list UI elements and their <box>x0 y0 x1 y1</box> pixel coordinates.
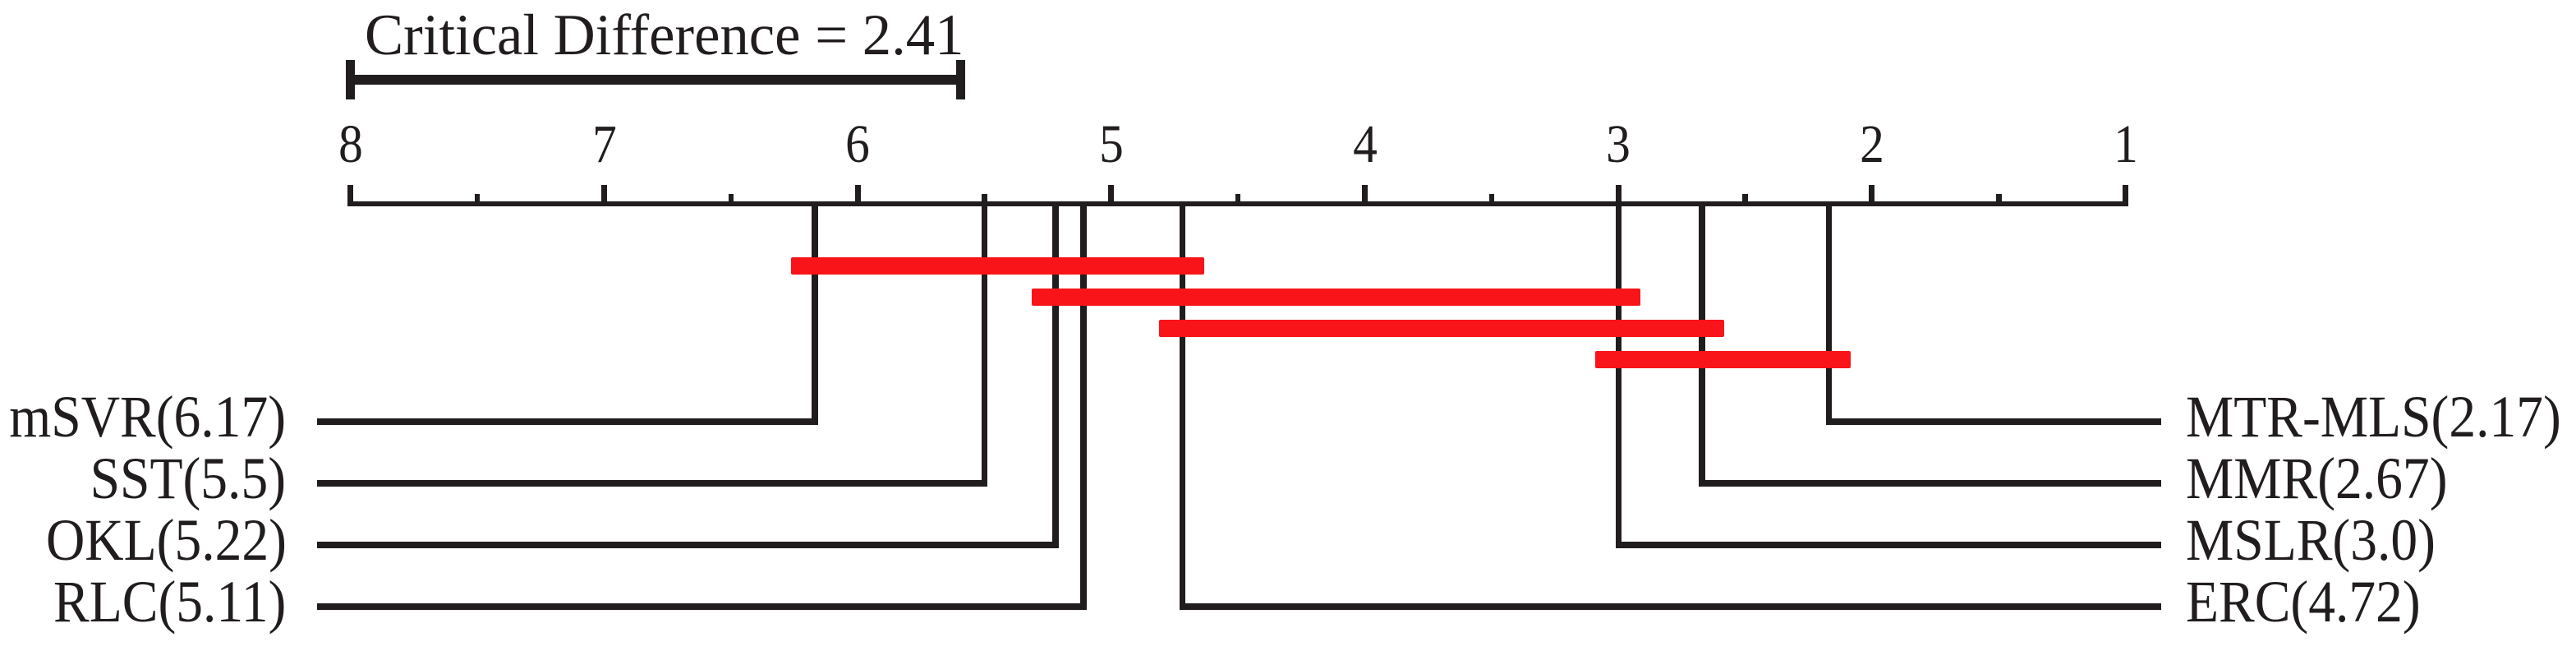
axis tick label 4 <box>1321 118 1410 172</box>
SST(5.5) vertical line <box>982 201 988 487</box>
axis tick label 7 <box>560 118 649 172</box>
axis minor tick 5.5 <box>982 194 987 207</box>
axis tick label 8 <box>306 118 395 172</box>
RLC(5.11) label <box>53 572 286 631</box>
axis major tick 7 <box>601 185 607 207</box>
axis minor tick 2.5 <box>1742 194 1748 207</box>
clique bar 1: ranks 6.17..4.72 <box>791 257 1204 275</box>
MTR-MLS(2.17) label <box>2186 387 2561 446</box>
RLC(5.11) horizontal connector <box>317 603 1087 610</box>
CD bracket left cap <box>346 60 355 100</box>
axis major tick 1 <box>2123 185 2128 207</box>
axis minor tick 1.5 <box>1996 194 2002 207</box>
SST(5.5) horizontal connector <box>317 480 988 487</box>
MTR-MLS(2.17) horizontal connector <box>1826 418 2161 425</box>
axis minor tick 7.5 <box>475 194 481 207</box>
axis major tick 6 <box>855 185 861 207</box>
MMR(2.67) vertical line <box>1699 201 1705 487</box>
MSLR(3.0) vertical line <box>1616 201 1622 548</box>
axis minor tick 4.5 <box>1235 194 1241 207</box>
RLC(5.11) vertical line <box>1080 201 1087 610</box>
axis tick label 5 <box>1067 118 1156 172</box>
OKL(5.22) vertical line <box>1052 201 1059 548</box>
CD bracket right cap <box>956 60 965 100</box>
ERC(4.72) vertical line <box>1180 201 1186 610</box>
clique bar 2: ranks 5.22..3.0 <box>1032 289 1640 306</box>
axis tick label 6 <box>813 118 902 172</box>
mSVR(6.17) vertical line <box>812 201 818 425</box>
axis tick label 3 <box>1574 118 1663 172</box>
title: Critical Difference = 2.41 <box>365 7 964 65</box>
MSLR(3.0) horizontal connector <box>1616 542 2162 548</box>
clique bar 3: ranks 4.72..2.67 <box>1159 320 1724 337</box>
SST(5.5) label <box>90 449 286 508</box>
MMR(2.67) label <box>2186 449 2448 508</box>
MMR(2.67) horizontal connector <box>1699 480 2161 487</box>
axis major tick 4 <box>1362 185 1368 207</box>
OKL(5.22) label <box>46 510 287 570</box>
axis major tick 2 <box>1869 185 1874 207</box>
mSVR(6.17) label <box>10 387 287 446</box>
axis major tick 5 <box>1108 185 1114 207</box>
CD bracket bar <box>346 75 965 85</box>
OKL(5.22) horizontal connector <box>317 542 1059 548</box>
axis tick label 2 <box>1828 118 1916 172</box>
axis major tick 8 <box>347 185 353 207</box>
MTR-MLS(2.17) vertical line <box>1826 201 1833 425</box>
ERC(4.72) horizontal connector <box>1180 603 2161 610</box>
mSVR(6.17) horizontal connector <box>317 418 818 425</box>
ERC(4.72) label <box>2186 572 2421 631</box>
axis line <box>347 201 2128 207</box>
MSLR(3.0) label <box>2186 510 2436 570</box>
axis minor tick 6.5 <box>729 194 734 207</box>
axis major tick 3 <box>1616 185 1621 207</box>
axis minor tick 3.5 <box>1489 194 1495 207</box>
clique bar 4: ranks 3.0..2.17 <box>1595 351 1851 368</box>
axis tick label 1 <box>2081 118 2170 172</box>
